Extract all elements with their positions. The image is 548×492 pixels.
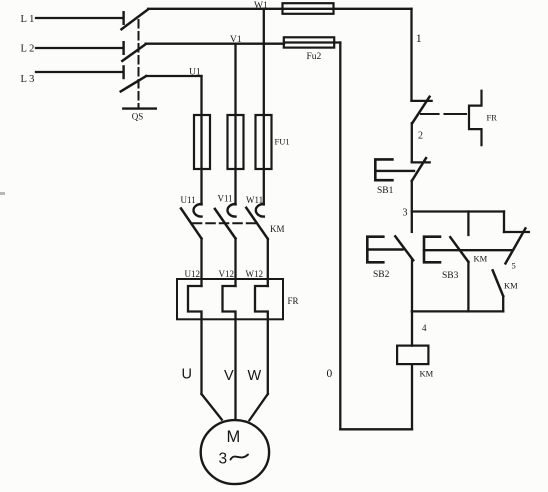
svg-text:U: U [182, 367, 192, 383]
wire bottom return bus [340, 428, 412, 430]
switch QS pole 3 blade [121, 76, 146, 91]
fuse Fu2 (lower) [284, 37, 334, 47]
wire W1 (top bus) [148, 8, 411, 10]
button SB1 plunger rod [375, 170, 414, 172]
button SB2 plunger rod [367, 248, 402, 250]
svg-text:L 1: L 1 [21, 14, 35, 25]
wire branch to node 4 [502, 296, 504, 311]
svg-text:3: 3 [403, 208, 408, 219]
motor tilde [231, 455, 249, 460]
contactor KM main contact V fixed arc [227, 204, 235, 217]
svg-text:0: 0 [327, 368, 333, 380]
svg-text:W11: W11 [246, 195, 263, 205]
wire to motor W [249, 394, 267, 420]
contact KM NO blade (below node 5) [493, 270, 504, 296]
contactor KM main contact W fixed arc [256, 204, 264, 217]
coil KM [397, 346, 428, 365]
motor M circle [201, 420, 269, 484]
svg-text:U1: U1 [189, 68, 201, 78]
svg-text:V: V [224, 368, 234, 384]
contactor KM main contact W blade [246, 208, 267, 239]
wire coil to bottom bus [411, 364, 413, 429]
contactor KM main contact U blade [181, 209, 202, 239]
node 3 bus [412, 210, 504, 212]
svg-text:FU1: FU1 [275, 137, 290, 147]
svg-text:KM: KM [474, 254, 488, 264]
svg-text:M: M [227, 428, 241, 446]
fuse FU1 pole W [256, 115, 272, 169]
wire L3 input [36, 71, 122, 73]
contactor KM linkage (dashed) [193, 222, 257, 224]
svg-text:FR: FR [487, 113, 498, 123]
svg-text:W12: W12 [246, 269, 264, 279]
contactor KM main contact U fixed arc [194, 204, 202, 217]
svg-text:W: W [248, 368, 262, 384]
wire V1 through fuse to 0-drop [284, 41, 340, 43]
wire V12 segment [234, 239, 236, 287]
wire 1 (vertical drop) [410, 9, 412, 101]
contact SB3 NO blade [450, 237, 468, 262]
contact KM NC blade (node 5) [506, 228, 526, 263]
svg-text:KM: KM [270, 224, 285, 234]
svg-text:3: 3 [219, 451, 228, 468]
node L1 contact jaw [122, 12, 124, 24]
svg-text:V11: V11 [218, 194, 233, 204]
wire stub contact KM aux top [467, 212, 469, 236]
switch QS linkage (dashed) [138, 20, 140, 109]
svg-text:KM: KM [504, 281, 518, 291]
contact SB1 NC blade [412, 158, 426, 181]
wire L2 input [36, 47, 122, 49]
wire W phase drop [263, 9, 265, 205]
svg-text:SB1: SB1 [377, 186, 394, 196]
svg-text:Fu2: Fu2 [307, 52, 322, 62]
wire 0 (long vertical) [339, 43, 341, 430]
wire SB2 to node 4 and coil [411, 260, 413, 345]
wire U1 [146, 75, 201, 77]
svg-text:2: 2 [418, 131, 423, 142]
wire V1 [146, 43, 284, 45]
thermal relay FR heater V [223, 286, 236, 420]
svg-text:QS: QS [132, 112, 144, 122]
wire to motor U [202, 394, 222, 420]
contactor KM main contact V blade [215, 209, 236, 239]
contact KM NC seat (node 5) [504, 231, 529, 233]
svg-text:SB2: SB2 [373, 270, 390, 280]
switch QS base bar [123, 107, 156, 109]
svg-text:V1: V1 [230, 35, 242, 45]
contact FR NC seat [412, 100, 432, 102]
node 4 bus [412, 310, 503, 312]
thermal relay FR heater U [188, 286, 202, 394]
svg-text:L 2: L 2 [21, 44, 35, 55]
wire node 3 to contact 5 [503, 212, 505, 233]
wire 3 (SB1 to node 3) [411, 181, 413, 232]
node L3 contact jaw [122, 66, 124, 78]
svg-text:L 3: L 3 [21, 74, 35, 85]
svg-text:W1: W1 [254, 1, 268, 11]
fuse Fu2 (upper) [283, 3, 334, 14]
button SB1 operator [375, 159, 392, 180]
svg-text:U12: U12 [185, 269, 201, 279]
thermal relay FR box [177, 279, 283, 319]
scan artifact left edge [0, 192, 5, 195]
wire U12 segment [200, 239, 202, 287]
fuse FU1 pole U [194, 115, 210, 169]
svg-text:FR: FR [288, 296, 299, 306]
wire L1 input [36, 17, 122, 19]
FR trip linkage (dashed) [421, 113, 466, 115]
node L2 contact jaw [122, 42, 124, 54]
button SB2 operator [367, 237, 383, 263]
contact SB2 NO blade [395, 236, 413, 260]
thermal relay FR heater W [255, 286, 268, 394]
button SB3 plunger rod [424, 249, 511, 251]
contact FR NC blade [412, 97, 429, 123]
wire V phase drop [234, 44, 236, 205]
fuse FU1 pole V [228, 115, 244, 169]
svg-text:V12: V12 [219, 269, 235, 279]
FR operator bracket [469, 91, 482, 145]
switch QS pole 1 blade [122, 9, 149, 29]
svg-text:1: 1 [416, 31, 422, 45]
button SB3 operator [424, 237, 440, 263]
svg-text:5: 5 [512, 261, 516, 271]
svg-text:4: 4 [422, 323, 427, 333]
contact SB1 NC seat [412, 161, 430, 163]
wire 2 [411, 123, 413, 162]
switch QS pole 2 blade [122, 44, 145, 61]
wire KM aux branch down [467, 262, 469, 312]
svg-text:KM: KM [420, 369, 434, 379]
svg-text:SB3: SB3 [442, 271, 459, 281]
wire W12 segment [267, 239, 269, 286]
wire U phase drop [200, 76, 202, 205]
svg-text:U11: U11 [181, 195, 196, 205]
